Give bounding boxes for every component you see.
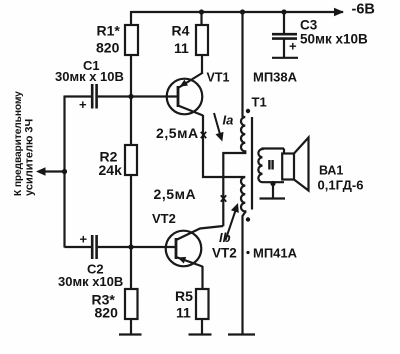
arrow Ib [226,203,239,240]
dash before MP41A [246,251,249,254]
polarity dot winding I bottom [246,217,250,221]
svg-text:11: 11 [176,305,191,321]
resistor R3 [125,289,138,319]
svg-text:VT1: VT1 [207,71,230,85]
svg-text:2,5мА: 2,5мА [156,125,199,141]
arrowhead output left [36,167,46,175]
transformer secondary winding II [258,149,284,183]
resistor R2 [125,145,137,175]
svg-text:усилителю 3Ч: усилителю 3Ч [24,119,36,196]
junction dot R4 top [199,9,204,14]
svg-text:VT2: VT2 [152,211,176,226]
ground R5 [189,333,212,335]
svg-text:МП41А: МП41А [253,246,298,261]
wire R3 bottom lead [130,319,132,335]
svg-text:C3: C3 [300,18,318,33]
svg-text:0,1ГД-6: 0,1ГД-6 [318,178,364,193]
wire R2 bottom to node B [130,175,132,289]
wire R4 top lead [200,12,202,25]
svg-text:Ib: Ib [219,230,231,245]
svg-text:30мк х10В: 30мк х10В [58,274,123,289]
wire top rail drop to transformer [241,12,243,117]
wire VT2 base [131,246,176,248]
transistor VT2 [166,226,224,267]
transformer T1 primary upper winding [241,117,245,153]
measuring point x VT1 emitter [201,132,206,138]
arrowhead -6V supply [334,8,344,17]
wire VT2 collector up to transformer upper winding bottom [223,153,245,226]
measuring point x VT2 collector [221,195,226,201]
VT1 emitter arrowhead [180,80,189,87]
svg-text:820: 820 [96,40,120,56]
arrow Ia [214,113,224,142]
node B junction dot C2/R2/R3/VT2 base [128,244,133,249]
svg-text:-6В: -6В [352,2,375,18]
resistor R1 [125,25,138,55]
svg-text:T1: T1 [252,95,267,110]
capacitor C2 [65,235,132,259]
resistor R5 [196,289,209,319]
svg-text:2,5мА: 2,5мА [154,186,197,202]
polarity dot winding I top [246,109,250,113]
capacitor C3 [272,12,297,58]
wire left drop from top rail to R1 [130,11,132,25]
speaker BA1 cone [294,138,309,191]
svg-text:50мк х10В: 50мк х10В [300,32,368,47]
svg-text:VT2: VT2 [212,246,237,261]
svg-text:МП38А: МП38А [253,70,298,85]
wire winding II bottom to ground [272,182,274,199]
wire VT2 emitter down to R5 [201,266,203,289]
junction dot C3 top [281,9,286,14]
speaker BA1 box [282,154,294,180]
wire VT1 emitter down and right to transformer lower winding [203,115,245,177]
svg-text:24k: 24k [99,162,123,178]
svg-text:Ia: Ia [223,113,234,128]
svg-text:820: 820 [95,305,119,321]
svg-text:30мк х 10В: 30мк х 10В [55,69,124,84]
capacitor C1 [65,84,132,109]
wire R5 bottom lead [201,319,203,335]
ground transformer [228,333,255,335]
winding II mark [269,160,272,170]
junction dot output arrow [62,169,67,174]
wire left rail [63,96,65,248]
wire VT1 base [131,95,178,97]
ground C3 [272,57,298,59]
svg-text:+: + [79,97,87,112]
wire lower winding bottom to ground [243,212,246,335]
svg-text:+: + [289,39,297,54]
transistor VT1 [167,73,203,116]
svg-text:+: + [80,232,88,247]
junction dot speaker ground [270,181,275,186]
svg-text:К предварительному: К предварительному [13,91,24,196]
svg-text:11: 11 [174,40,189,56]
svg-text:R1*: R1* [97,23,121,39]
transformer core [251,117,253,210]
transformer T1 primary lower winding [241,177,245,213]
resistor R4 [196,25,208,55]
svg-text:ВА1: ВА1 [319,164,343,178]
ground speaker [260,197,286,199]
wire top rail [131,11,343,13]
svg-text:R4: R4 [172,23,190,39]
wire winding II top into speaker [283,149,285,154]
svg-text:R5: R5 [175,288,193,304]
node A junction dot C1/R1/R2/VT1 base [128,94,133,99]
VT2 emitter arrowhead [178,257,187,264]
junction dot transformer top [240,9,245,14]
ground R3 [119,333,142,335]
wire output arrow to preamplifier [41,170,65,172]
wire R4 bottom to VT1 collector [201,55,203,73]
wire R1 bottom to node A [130,55,132,145]
